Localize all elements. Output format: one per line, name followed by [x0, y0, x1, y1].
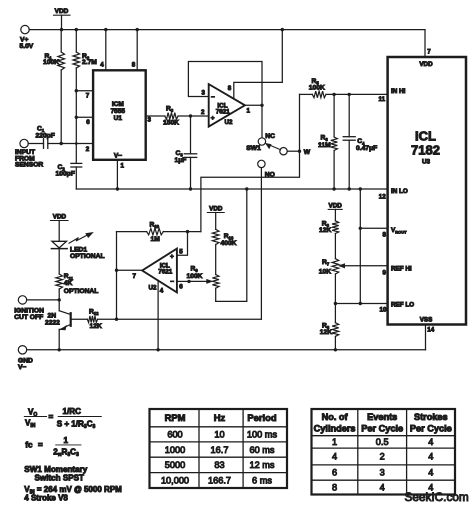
node loop/rail junction — [245, 187, 248, 190]
svg-text:VIN: VIN — [25, 419, 36, 430]
svg-text:ICM: ICM — [112, 101, 124, 108]
resistor R6 12K — [319, 220, 339, 258]
wire VSS drop — [425, 325, 427, 350]
capacitor C1 220pF — [28, 126, 93, 149]
svg-text:10,000: 10,000 — [161, 475, 189, 485]
power VDD symbol (top left) — [54, 8, 71, 29]
svg-text:600: 600 — [167, 430, 182, 440]
svg-text:U2: U2 — [225, 119, 233, 126]
svg-text:VDD: VDD — [53, 214, 67, 221]
svg-text:S + 1/R3C3: S + 1/R3C3 — [57, 419, 96, 430]
svg-text:No. of: No. of — [322, 412, 349, 422]
node R7 bottom / REF LO junction — [334, 302, 337, 305]
svg-text:REF LO: REF LO — [391, 301, 414, 308]
resistor R16 400K — [212, 229, 236, 274]
svg-text:7621: 7621 — [216, 109, 231, 116]
node W junction — [298, 150, 301, 153]
capacitor C2 100pF — [56, 144, 82, 190]
wire REF HI with wiper arrow — [338, 263, 388, 268]
op-amp U2b ICL 7621 — [142, 249, 177, 293]
formula corner frequency — [25, 436, 81, 458]
svg-text:8: 8 — [132, 62, 136, 69]
svg-text:VDD: VDD — [209, 206, 223, 213]
svg-text:U3: U3 — [422, 159, 431, 166]
potentiometer R9 100K — [187, 265, 220, 301]
svg-text:SENSOR: SENSOR — [15, 162, 43, 169]
svg-text:7: 7 — [86, 93, 90, 100]
switch SW1 arm with arrow — [265, 143, 281, 150]
svg-text:4: 4 — [428, 467, 433, 477]
svg-text:3: 3 — [148, 117, 152, 124]
svg-text:0.47μF: 0.47μF — [356, 145, 377, 152]
op-amp U2a ICL 7621 — [209, 84, 245, 127]
svg-text:11M: 11M — [318, 142, 331, 149]
svg-text:6 ms: 6 ms — [252, 475, 272, 485]
svg-text:Per Cycle: Per Cycle — [410, 424, 452, 434]
resistor R2 2.7M — [73, 30, 97, 91]
IC U3 ICL 7182 — [388, 57, 466, 325]
wire pin6 to input line — [75, 117, 77, 143]
wire GND rail — [27, 349, 426, 351]
svg-text:R12: R12 — [89, 308, 99, 316]
wire ignition to collector — [27, 299, 60, 301]
node VDD/R2 junction — [75, 28, 78, 31]
svg-text:100 ms: 100 ms — [247, 430, 278, 440]
resistor R5 100K — [300, 78, 327, 98]
svg-text:IN HI: IN HI — [391, 88, 406, 95]
svg-text:12K: 12K — [320, 329, 332, 336]
wire R3 to U2a +input — [178, 115, 209, 117]
switch SW1 pole — [280, 148, 287, 155]
resistor R3 150K — [163, 105, 179, 126]
node C3 junction — [189, 114, 192, 117]
svg-text:1: 1 — [121, 163, 125, 170]
wire pole to W — [287, 150, 299, 152]
svg-text:8: 8 — [383, 232, 387, 239]
svg-text:1μF: 1μF — [175, 157, 187, 164]
node pin4/GND junction — [156, 348, 159, 351]
svg-text:4: 4 — [332, 451, 337, 461]
svg-text:OPTIONAL: OPTIONAL — [64, 288, 99, 295]
svg-text:5000: 5000 — [165, 460, 185, 470]
node pin4 junction — [104, 28, 107, 31]
wire W net down to R10 — [201, 94, 300, 231]
table RPM/Hz/Period — [150, 409, 288, 488]
terminal V+ 5.0V — [20, 25, 34, 49]
svg-text:Switch SPST: Switch SPST — [35, 473, 85, 482]
svg-text:2: 2 — [201, 109, 205, 116]
wire output to NC — [261, 105, 263, 137]
svg-text:R7: R7 — [322, 259, 330, 267]
svg-text:2222: 2222 — [45, 320, 60, 327]
svg-text:Per Cycle: Per Cycle — [361, 424, 403, 434]
node VROUT/REF LO junction — [359, 302, 362, 305]
svg-text:4: 4 — [428, 451, 433, 461]
svg-text:−: − — [211, 94, 215, 101]
svg-text:12 ms: 12 ms — [249, 460, 274, 470]
svg-text:3: 3 — [202, 90, 206, 97]
svg-text:100K: 100K — [43, 59, 59, 66]
wire U2a pin8 supply — [234, 30, 282, 99]
svg-text:14: 14 — [427, 327, 434, 334]
svg-text:5.0V: 5.0V — [20, 43, 34, 50]
svg-text:8: 8 — [228, 85, 232, 92]
svg-text:12: 12 — [379, 194, 386, 201]
formula transfer function — [24, 407, 101, 430]
wire U2b pin4 to GND — [157, 281, 159, 350]
wire REF LO — [335, 303, 387, 305]
resistor R12 12K (base) — [71, 308, 102, 330]
svg-text:REF HI: REF HI — [391, 266, 412, 273]
node VROUT stub junction — [359, 227, 362, 230]
note VIN — [24, 485, 122, 503]
resistor R11 4K — [56, 273, 98, 300]
LED LED1 — [51, 232, 104, 260]
svg-text:V−: V− — [18, 364, 26, 371]
svg-text:VDD: VDD — [419, 61, 433, 68]
node collector junction — [58, 298, 61, 301]
switch SW1 NO contact — [258, 160, 265, 167]
wire VDD top rail — [29, 29, 425, 31]
svg-text:8: 8 — [332, 482, 337, 492]
svg-text:=: = — [38, 440, 43, 449]
switch SW1 NC contact — [258, 138, 265, 145]
svg-text:3: 3 — [380, 467, 385, 477]
note SW1 — [24, 465, 87, 483]
wire output to base line — [116, 232, 118, 320]
node pin7 junction — [75, 89, 78, 92]
svg-text:R9: R9 — [191, 265, 199, 273]
svg-text:7182: 7182 — [411, 143, 440, 158]
svg-text:83: 83 — [214, 460, 224, 470]
wire U1 pin1 to IN LO rail — [116, 160, 118, 189]
svg-text:W: W — [304, 149, 311, 156]
capacitor C3 1uF — [175, 116, 197, 189]
svg-text:5: 5 — [179, 249, 183, 256]
node U2a supply junction — [281, 28, 284, 31]
svg-text:4: 4 — [100, 62, 104, 69]
svg-text:100K: 100K — [187, 273, 203, 280]
capacitor C4 0.47uF — [343, 94, 377, 189]
svg-text:V−: V− — [114, 153, 122, 160]
svg-text:9: 9 — [383, 270, 387, 277]
node R8/GND junction — [334, 348, 337, 351]
node pin5/R10 junction — [186, 230, 189, 233]
svg-text:R3: R3 — [166, 105, 174, 113]
svg-text:7621: 7621 — [158, 269, 173, 276]
wire U2a output — [245, 104, 262, 106]
svg-text:2πR3C3: 2πR3C3 — [53, 448, 79, 459]
svg-text:4: 4 — [428, 437, 433, 447]
svg-text:6: 6 — [179, 284, 183, 291]
potentiometer R7 10K — [319, 259, 339, 304]
svg-text:R6: R6 — [321, 134, 329, 142]
svg-text:220pF: 220pF — [36, 132, 55, 139]
node pin6 junction — [75, 116, 78, 119]
power VDD symbol (divider) — [328, 203, 342, 221]
svg-text:11: 11 — [379, 96, 386, 103]
resistor R4 11M — [318, 94, 337, 189]
svg-text:1/RC: 1/RC — [63, 407, 82, 416]
node R1/input junction — [60, 142, 63, 145]
svg-text:4: 4 — [380, 482, 385, 492]
wire pin8 — [136, 30, 138, 71]
svg-text:6: 6 — [86, 119, 90, 126]
wire NO to base line — [260, 168, 262, 320]
wire R9 bottom loop to IN LO — [216, 189, 247, 301]
svg-text:Events: Events — [367, 412, 397, 422]
node output junction — [260, 104, 263, 107]
node output/R10 junction — [115, 269, 118, 272]
svg-text:ICL: ICL — [415, 129, 436, 144]
wire pin7 stub — [76, 90, 93, 92]
svg-text:NC: NC — [265, 133, 275, 140]
svg-text:2: 2 — [380, 451, 385, 461]
node pin2/C2 junction — [75, 142, 78, 145]
node C4 bottom junction — [348, 187, 351, 190]
resistor R8 12K — [320, 304, 339, 350]
svg-text:12K: 12K — [90, 323, 102, 330]
transistor Q1 2N2222 — [45, 300, 71, 350]
power VDD symbol (LED) — [51, 214, 69, 242]
wire R5 to IN HI — [326, 93, 388, 95]
node VDD/R1 junction — [60, 28, 63, 31]
resistor R1 100K — [43, 30, 65, 144]
svg-text:1: 1 — [332, 437, 337, 447]
svg-text:IN LO: IN LO — [391, 188, 408, 195]
IC U1 ICM 7555 — [93, 70, 146, 160]
wire R2 to pin6 — [75, 91, 77, 118]
svg-text:SW1: SW1 — [246, 145, 261, 152]
svg-text:U1: U1 — [114, 115, 123, 122]
svg-text:1: 1 — [64, 436, 69, 445]
svg-text:VDD: VDD — [329, 203, 343, 210]
node C4 top junction — [348, 93, 351, 96]
terminal GND V- — [18, 346, 33, 371]
node VROUT/rail junction — [359, 187, 362, 190]
svg-text:4: 4 — [160, 287, 164, 294]
svg-text:2.7M: 2.7M — [82, 59, 97, 66]
svg-text:7: 7 — [133, 273, 137, 280]
wire pin5 stub — [177, 232, 188, 256]
svg-text:RPM: RPM — [165, 412, 186, 423]
svg-text:100K: 100K — [309, 84, 325, 91]
power VDD symbol (R16) — [207, 206, 224, 230]
terminal IGNITION CUT OFF — [14, 296, 44, 321]
svg-text:1000: 1000 — [165, 445, 185, 455]
svg-text:Cylinders: Cylinders — [314, 424, 356, 434]
svg-text:VDD: VDD — [55, 8, 69, 15]
node emitter/GND junction — [58, 348, 61, 351]
svg-text:2N: 2N — [48, 312, 57, 319]
node R4 top junction — [332, 93, 335, 96]
svg-text:166.7: 166.7 — [208, 475, 231, 485]
wire U2b output — [117, 269, 143, 271]
svg-text:400K: 400K — [221, 240, 237, 247]
svg-text:4 Stroke V8: 4 Stroke V8 — [24, 494, 68, 503]
svg-text:4K: 4K — [64, 280, 73, 287]
node base/output junction — [115, 318, 118, 321]
terminal INPUT FROM SENSOR — [15, 139, 43, 168]
svg-text:R10: R10 — [150, 221, 160, 229]
svg-text:1M: 1M — [151, 236, 161, 243]
svg-text:fc: fc — [25, 440, 33, 449]
wire U2a feedback loop — [188, 62, 262, 106]
wire base line to NO — [98, 318, 262, 320]
svg-text:1: 1 — [247, 108, 251, 115]
svg-text:U2: U2 — [149, 284, 157, 291]
svg-text:CUT OFF: CUT OFF — [14, 314, 43, 321]
svg-text:0.5: 0.5 — [376, 437, 389, 447]
node pin6 junction — [187, 280, 190, 283]
svg-text:Period: Period — [247, 412, 276, 423]
svg-text:10K: 10K — [319, 268, 331, 275]
node pin1/rail junction — [116, 187, 119, 190]
wire VROUT — [360, 189, 387, 304]
resistor R10 1M — [117, 221, 201, 243]
svg-text:OPTIONAL: OPTIONAL — [70, 253, 105, 260]
svg-text:SeekIC.com: SeekIC.com — [405, 490, 469, 504]
node C3/rail junction — [189, 187, 192, 190]
svg-text:=: = — [49, 412, 54, 421]
wire pin6 stub — [76, 116, 93, 118]
table cylinders/events/strokes — [312, 409, 456, 495]
svg-text:2: 2 — [86, 146, 90, 153]
node R4 bottom junction — [332, 187, 335, 190]
svg-text:60 ms: 60 ms — [249, 445, 274, 455]
wire pin6 to wiper arrow — [177, 279, 213, 284]
svg-text:12K: 12K — [319, 227, 331, 234]
svg-text:150K: 150K — [163, 119, 179, 126]
svg-text:Strokes: Strokes — [414, 412, 448, 422]
wire IN LO rail — [76, 188, 387, 190]
svg-text:7: 7 — [427, 49, 431, 56]
wire pin3 output — [146, 115, 165, 117]
svg-text:10: 10 — [380, 306, 387, 313]
wire pin4 — [105, 30, 107, 71]
node pin8 junction — [136, 28, 139, 31]
svg-text:+: + — [170, 253, 174, 260]
svg-text:100pF: 100pF — [56, 170, 75, 177]
svg-text:10: 10 — [214, 430, 224, 440]
svg-text:6: 6 — [332, 467, 337, 477]
svg-text:−: − — [170, 279, 174, 286]
svg-text:VSS: VSS — [420, 316, 433, 323]
svg-text:16.7: 16.7 — [211, 445, 229, 455]
svg-text:7555: 7555 — [111, 108, 126, 115]
wire LED to R11 — [58, 249, 60, 274]
wire U3 pin7 supply — [424, 30, 426, 57]
svg-text:+: + — [211, 115, 215, 122]
svg-text:Hz: Hz — [214, 412, 226, 423]
